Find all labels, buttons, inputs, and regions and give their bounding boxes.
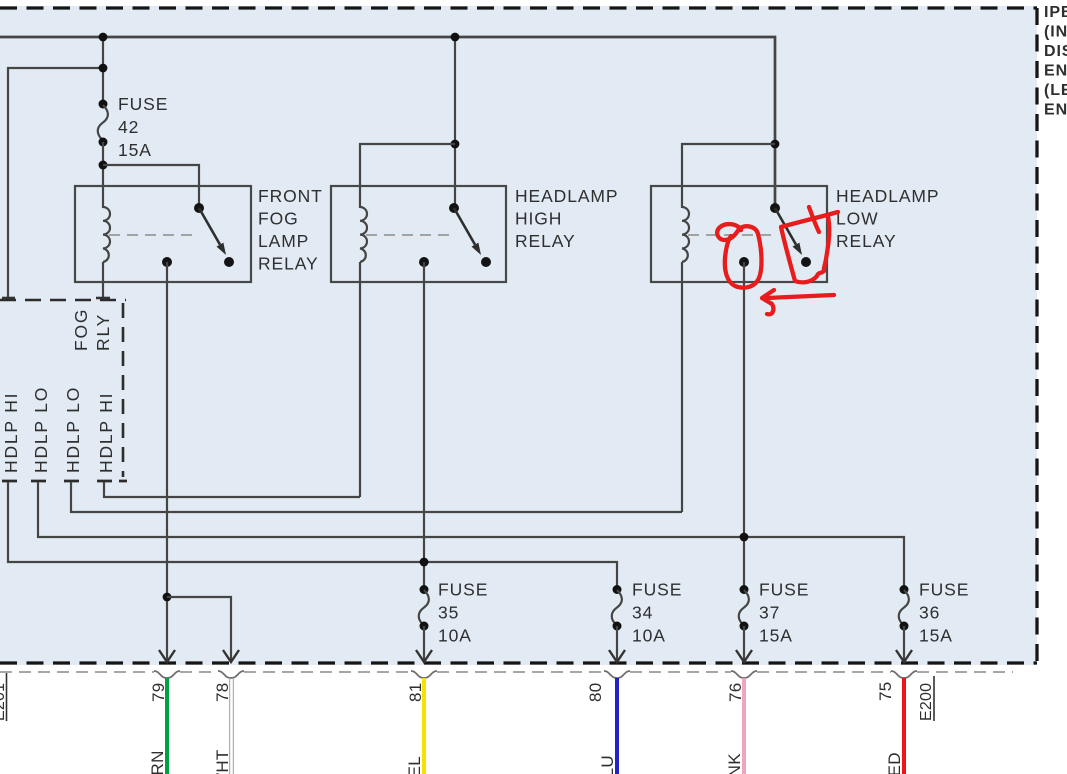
node: bus / fuse42 <box>99 33 108 42</box>
svg-text:35: 35 <box>438 603 459 623</box>
arrow out 75 <box>896 650 912 662</box>
svg-text:76: 76 <box>726 682 745 702</box>
connector cutout dashed boundary top <box>0 299 126 302</box>
connector bump 78 <box>218 671 244 678</box>
svg-text:HIGH: HIGH <box>515 208 562 228</box>
node: K1 common output <box>162 257 172 267</box>
node: fog output split <box>163 593 172 602</box>
pin tick FOG RLY <box>96 297 110 300</box>
wire: K2 coil to HDLP HI line <box>359 262 361 497</box>
wire: relay K2 feed drop <box>454 37 456 208</box>
svg-text:HDLP LO: HDLP LO <box>31 386 51 473</box>
node IPB label (right of border) <box>1044 4 1067 119</box>
node: K3 output / line2 <box>740 533 749 542</box>
connector bump 75 <box>891 671 917 678</box>
switch K1 <box>194 203 234 267</box>
svg-text:79: 79 <box>149 682 168 702</box>
svg-text:75: 75 <box>876 681 895 701</box>
svg-text:RELAY: RELAY <box>515 231 576 251</box>
fuse F35 <box>419 585 429 661</box>
arrow out 79 <box>159 650 175 662</box>
wire: K2 output down to fuse 35 <box>423 262 425 588</box>
svg-text:FUSE: FUSE <box>759 580 809 600</box>
svg-text:WHT: WHT <box>213 749 232 774</box>
svg-text:15A: 15A <box>759 626 793 646</box>
svg-text:PNK: PNK <box>725 753 744 774</box>
pin tick left feed <box>2 297 15 300</box>
node: bus / K2 <box>451 33 460 42</box>
node: left feed branch <box>99 64 108 73</box>
connector C2 dashed line <box>0 671 1013 673</box>
wire: K3 output down to fuse 37 <box>743 262 745 588</box>
wire 81 YEL <box>422 678 426 774</box>
wire: K1 coil to FOG RLY pin <box>102 262 104 298</box>
wire 78 WHT <box>230 678 234 774</box>
wire 79 GRN <box>165 678 169 774</box>
svg-text:YEL: YEL <box>405 756 424 774</box>
wire: K1 output to connectors 79/78 <box>166 262 168 662</box>
svg-text:RED: RED <box>885 752 904 774</box>
fuse F42 symbol <box>98 100 108 147</box>
wire: K2 coil link <box>360 144 455 208</box>
svg-text:HEADLAMP: HEADLAMP <box>836 186 939 206</box>
relay K1 box: front fog lamp relay <box>75 186 251 282</box>
arrow out 80 <box>609 650 625 662</box>
wire: main battery feed bus (top) <box>0 37 775 208</box>
wire: drop to fuse 42 <box>102 37 104 104</box>
svg-text:42: 42 <box>118 117 139 137</box>
switch K3 <box>770 203 811 267</box>
svg-text:80: 80 <box>586 682 605 702</box>
svg-text:RELAY: RELAY <box>836 231 897 251</box>
svg-text:(IN: (IN <box>1044 24 1067 41</box>
switch K2 <box>449 203 491 267</box>
node: K2 output / line1 <box>420 558 429 567</box>
relay K2 box: headlamp high relay <box>331 186 506 282</box>
svg-text:FOG: FOG <box>258 208 299 228</box>
coil K1 <box>103 207 110 262</box>
relay K3 box: headlamp low relay <box>651 186 827 282</box>
ground ref E201 <box>0 673 8 721</box>
wire 80 BLU <box>615 678 619 774</box>
svg-text:36: 36 <box>919 603 940 623</box>
connector bump 80 <box>604 671 630 678</box>
arrow out 78 <box>223 650 239 662</box>
svg-text:BLU: BLU <box>598 755 617 774</box>
wire: branch to connector 78 <box>167 597 231 662</box>
wire: branch to fog relay switch <box>103 165 199 208</box>
svg-text:FUSE: FUSE <box>438 580 488 600</box>
svg-text:EN: EN <box>1044 63 1067 80</box>
node: fuse42 out branch <box>99 161 108 170</box>
coil K3 <box>682 207 689 262</box>
actuation dashed link K2 <box>366 234 452 236</box>
svg-text:15A: 15A <box>919 626 953 646</box>
svg-text:RELAY: RELAY <box>258 253 319 273</box>
actuation dashed link K1 <box>109 234 198 236</box>
arrow out 81 <box>416 650 432 662</box>
svg-text:FRONT: FRONT <box>258 186 323 206</box>
coil K2 <box>360 207 367 262</box>
svg-text:78: 78 <box>213 682 232 702</box>
wire 76 PNK <box>742 678 746 774</box>
red annotation: circle around K3 output pin <box>717 224 761 288</box>
svg-text:15A: 15A <box>118 140 152 160</box>
fuse F36 <box>899 585 909 661</box>
svg-text:RLY: RLY <box>93 313 113 351</box>
dashed border of IP fuse block <box>0 6 1037 9</box>
red annotation: box around K3 switch <box>781 207 838 282</box>
node: K2 coil branch <box>451 140 460 149</box>
connector bump 79 <box>154 671 180 678</box>
svg-text:HDLP HI: HDLP HI <box>96 392 116 473</box>
svg-text:FUSE: FUSE <box>919 580 969 600</box>
wire: K3 coil link <box>682 144 775 208</box>
connector bump 76 <box>731 671 757 678</box>
svg-text:LOW: LOW <box>836 208 879 228</box>
wire: fuse 42 output to relay coil <box>102 142 104 208</box>
svg-text:FUSE: FUSE <box>632 580 682 600</box>
arrow out 76 <box>736 650 752 662</box>
svg-text:HDLP LO: HDLP LO <box>63 386 83 473</box>
wire: HDLP HI line 1 to fuses 35/34 <box>8 482 617 588</box>
svg-text:37: 37 <box>759 603 780 623</box>
svg-text:LAMP: LAMP <box>258 231 309 251</box>
svg-text:HEADLAMP: HEADLAMP <box>515 186 618 206</box>
fuse F37 <box>739 585 749 661</box>
svg-text:E200: E200 <box>918 683 935 721</box>
svg-text:(LE: (LE <box>1044 82 1067 99</box>
red annotation: arrow pointing left <box>762 290 834 314</box>
svg-text:34: 34 <box>632 603 653 623</box>
connector bump 81 <box>411 671 437 678</box>
connector cutout dashed boundary bottom <box>2 480 127 483</box>
wire: HDLP LO line 3 to K3 coil <box>71 482 682 512</box>
svg-text:FUSE: FUSE <box>118 94 168 114</box>
wire: K3 coil to HDLP LO line <box>681 262 683 512</box>
svg-text:10A: 10A <box>438 626 472 646</box>
svg-text:EN: EN <box>1044 102 1067 119</box>
node: K3 common output <box>739 257 749 267</box>
svg-text:10A: 10A <box>632 626 666 646</box>
connector cutout dashed boundary right <box>122 303 125 477</box>
wire 75 RED <box>902 678 906 774</box>
wire: branch to left feed <box>8 68 103 298</box>
svg-text:HDLP HI: HDLP HI <box>1 392 21 473</box>
node: K3 coil branch <box>771 140 780 149</box>
actuation dashed link K3 <box>688 234 773 236</box>
svg-text:FOG: FOG <box>71 308 91 351</box>
node: K2 common output <box>419 257 429 267</box>
wire: HDLP HI line 4 to K2 coil <box>104 482 360 497</box>
fuse F34 <box>612 585 622 661</box>
svg-text:81: 81 <box>406 682 425 702</box>
svg-text:DIS: DIS <box>1044 43 1067 60</box>
svg-text:GRN: GRN <box>148 750 167 774</box>
ground ref E200 <box>918 676 935 721</box>
wire: HDLP LO line 2 to fuses 37/36 <box>38 482 904 588</box>
svg-text:IPB: IPB <box>1044 4 1067 21</box>
